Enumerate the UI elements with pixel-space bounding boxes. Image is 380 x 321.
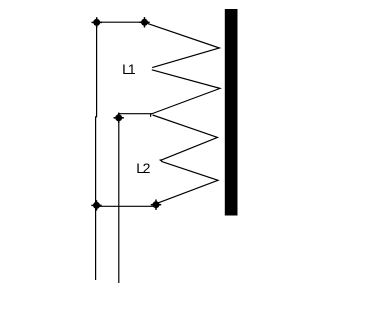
svg-text:L1: L1: [122, 61, 136, 77]
core bar: [225, 9, 238, 216]
inductor L2 winding: [153, 115, 218, 204]
junction node C (middle tap): [114, 113, 124, 123]
svg-text:L2: L2: [136, 160, 150, 176]
wire left vertical (node A down through node D): [96, 22, 97, 280]
junction node D (bottom left): [91, 200, 101, 210]
wire bottom (node D to node E): [97, 205, 157, 207]
junction node E (bottom right): [151, 200, 161, 210]
wire tap horizontal (node C to L1/L2 tap): [119, 113, 153, 115]
junction node B (top right): [139, 17, 149, 27]
wire tap tick: [150, 114, 152, 117]
inductor L1 winding: [145, 22, 221, 114]
wire tap vertical (node C down): [118, 118, 120, 283]
junction node A (top left): [92, 17, 102, 27]
wire top (node A to node B): [97, 21, 145, 23]
